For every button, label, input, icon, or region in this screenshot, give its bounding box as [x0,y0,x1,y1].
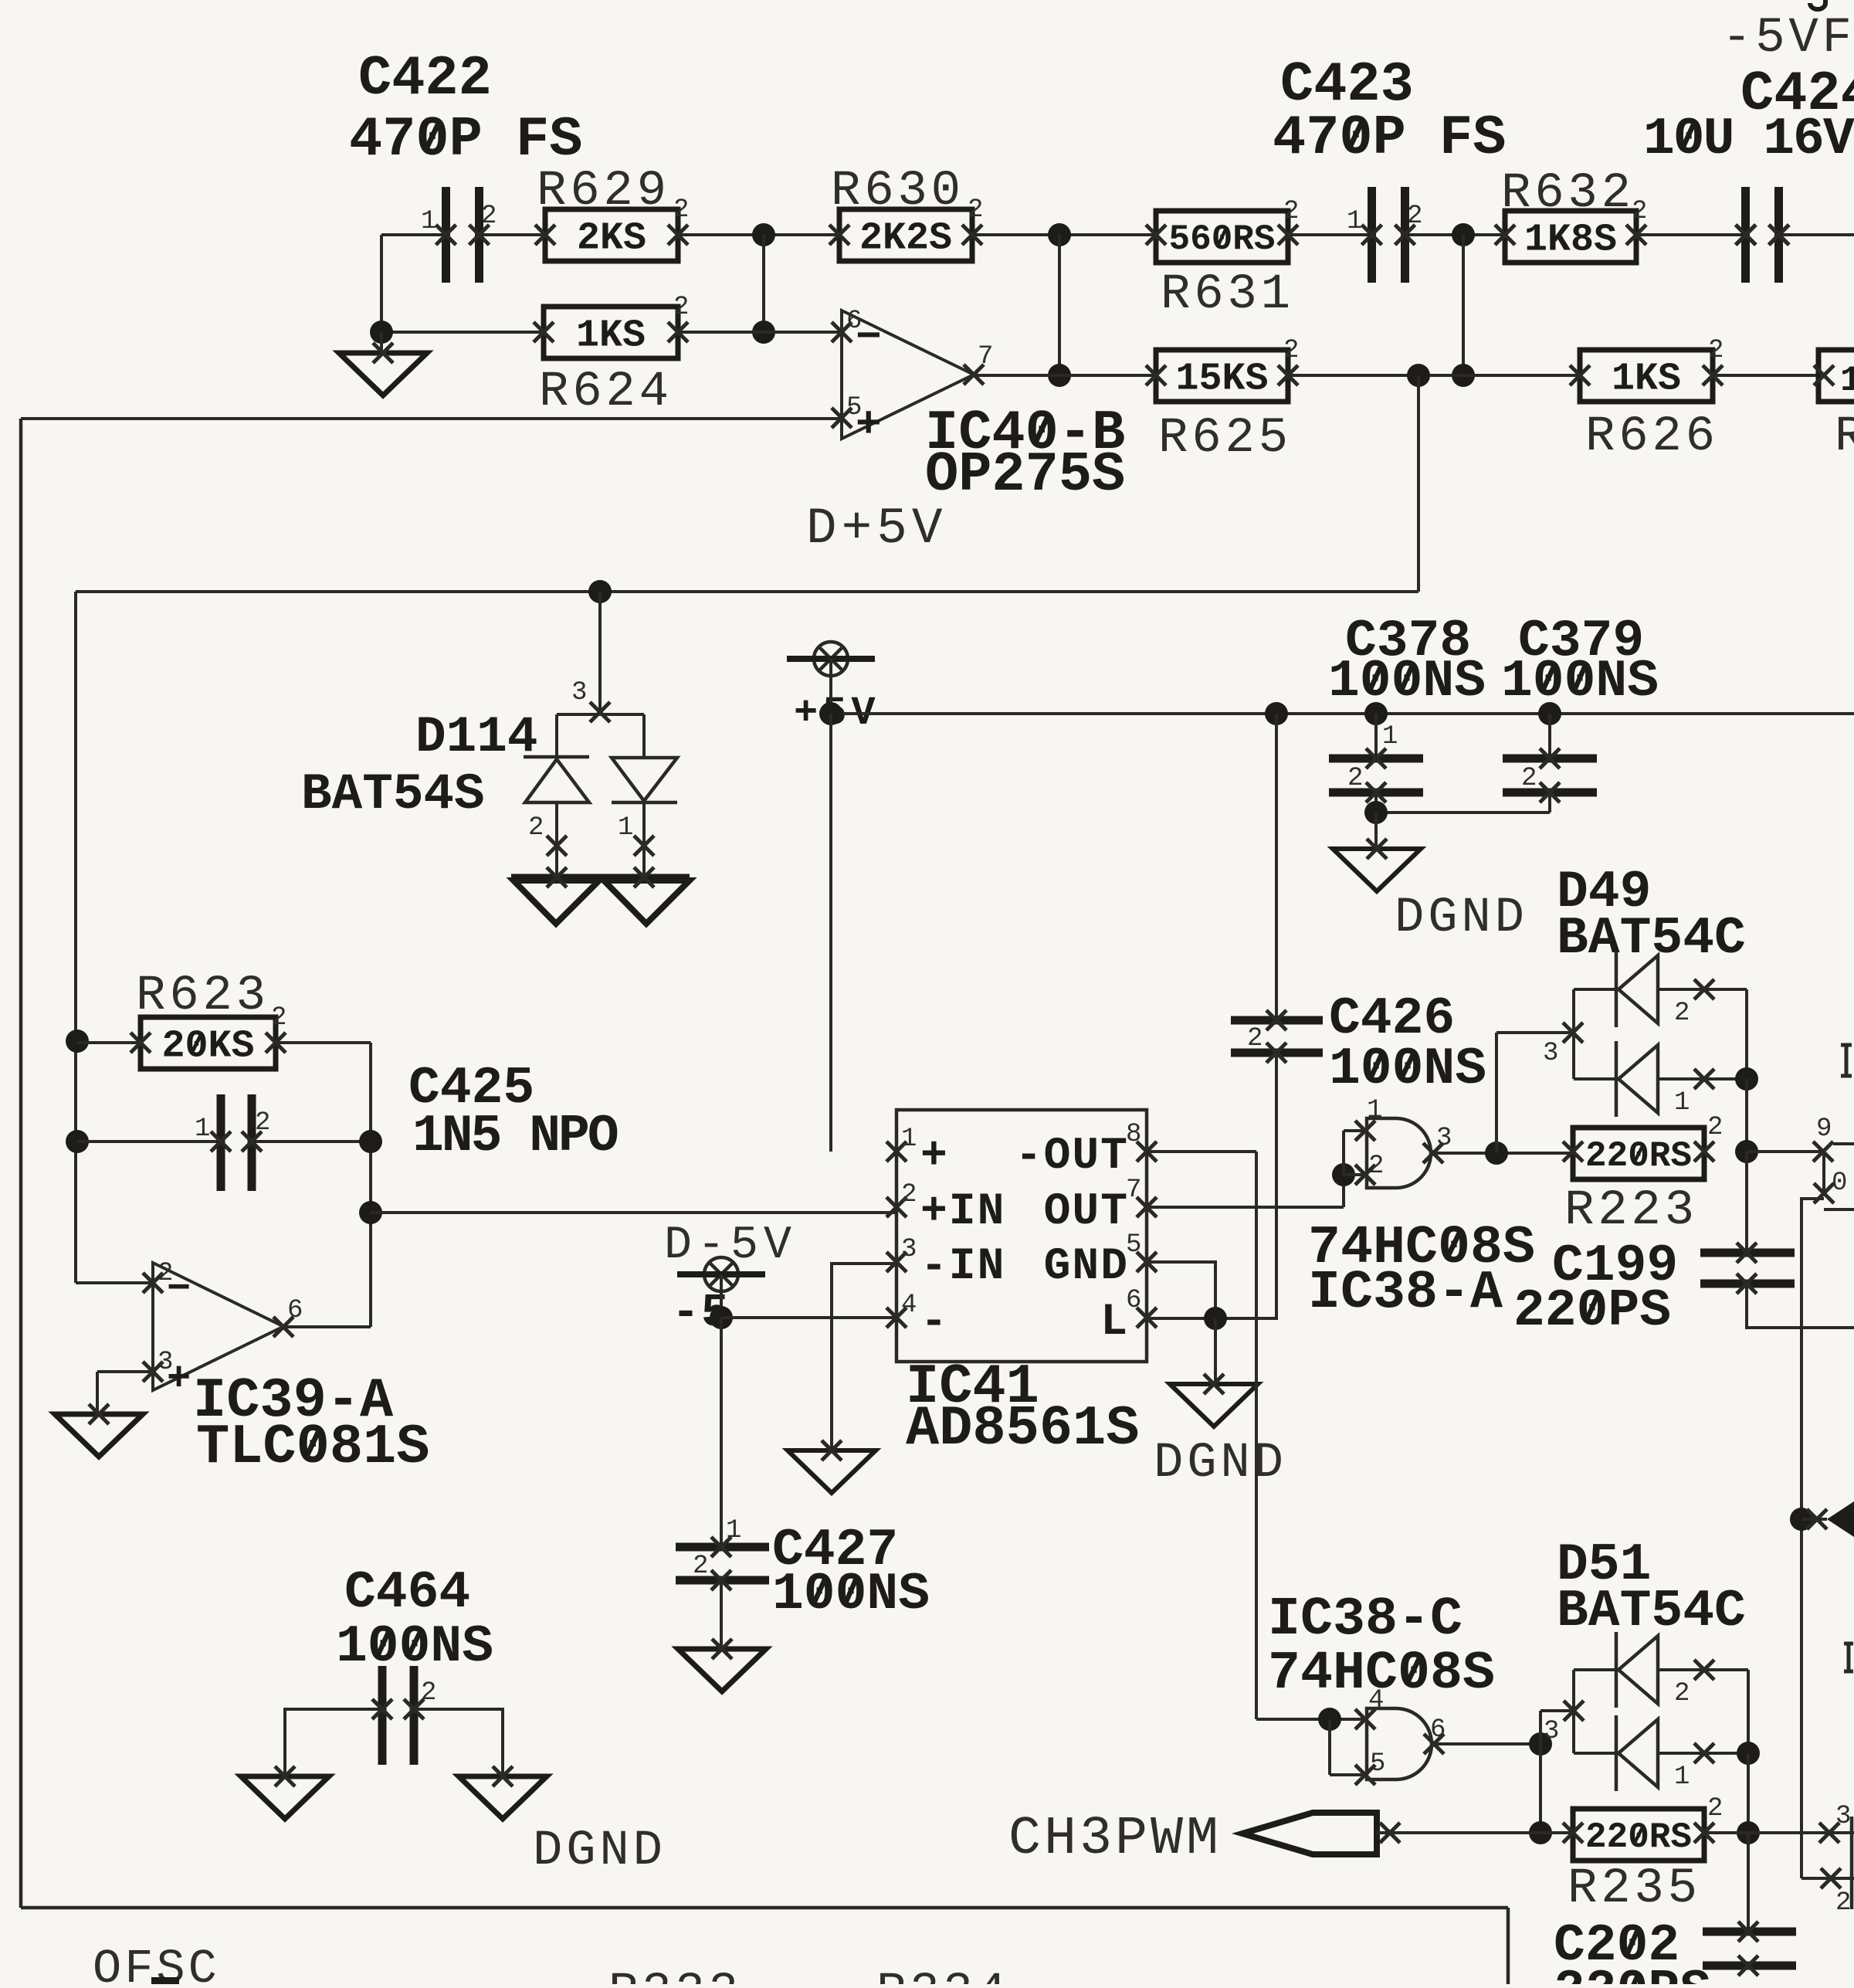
svg-text:2: 2 [1247,1024,1263,1053]
wire C427 to ground [720,1580,723,1649]
wire GND pin jog [1147,1262,1215,1318]
svg-text:6: 6 [287,1296,303,1325]
svg-text:R334: R334 [876,1966,1010,1984]
capacitor C378 [1374,714,1378,758]
svg-text:-IN: -IN [920,1242,1005,1292]
power symbol D-5V [704,1257,738,1291]
svg-text:2: 2 [1368,1152,1384,1181]
svg-text:2: 2 [271,1003,286,1033]
wire -IN jog to ground [832,1264,896,1450]
svg-text:2: 2 [255,1108,270,1138]
resistor R625 [1156,350,1288,402]
wire IC38-A input bracket [1342,1131,1345,1175]
svg-text:2: 2 [1407,202,1422,231]
svg-text:R631: R631 [1161,267,1294,323]
wire op-amp output row y=486 [974,374,1156,377]
svg-text:2: 2 [1674,1679,1690,1708]
svg-text:IC38-C: IC38-C [1268,1589,1463,1650]
svg-text:3: 3 [1544,1717,1559,1746]
wire pin10 bracket [1822,1152,1825,1193]
wire D-5V down to C427 [720,1318,723,1547]
wire inner feedback y=766 [76,590,1418,593]
wire C464 right leg [414,1709,503,1776]
ground under IC39-A + [55,1414,143,1457]
resistor R631 [1156,211,1288,263]
svg-text:220PS: 220PS [1554,1962,1711,1984]
capacitor C202 [1747,1833,1750,1932]
wire C426 bottom to L net [1275,1053,1278,1318]
svg-text:R: R [1835,409,1854,465]
svg-text:3: 3 [1543,1039,1558,1068]
AND gate IC38-A 74HC08S [1367,1118,1431,1188]
op-amp IC39-A TLC081S [153,1263,283,1390]
wire -OUT pin8 to drop [1147,1150,1256,1153]
capacitor C425 [221,1094,252,1191]
wire IC39 output [283,1325,371,1328]
wire -OUT long drop x=1627 [1255,1152,1258,1719]
wire D51 common down to R235 net [1747,1753,1750,1833]
svg-text:6: 6 [1430,1715,1446,1745]
ground DGND under C378 [1333,849,1421,891]
connector CH3PWM arrow [1242,1813,1377,1854]
wire junction drop x=989 [762,235,765,332]
svg-text:0: 0 [1832,1169,1847,1198]
svg-text:2: 2 [968,195,983,225]
IC41 pin3 -IN [886,1252,907,1272]
svg-text:2: 2 [158,1259,173,1288]
junction node C423/R632 [1452,223,1475,246]
wire OUT pin7 to gate IC38-A [1147,1206,1344,1209]
svg-text:R626: R626 [1585,409,1719,465]
svg-text:R333: R333 [608,1966,742,1984]
svg-text:2: 2 [1707,1794,1723,1823]
wire frame right drop x=1953 [1507,1908,1510,1984]
svg-text:2: 2 [1521,764,1537,793]
wire left frame vertical x=27 [19,419,23,1908]
svg-text:CH3PWM: CH3PWM [1008,1809,1222,1870]
IC41 pin2 +IN [886,1197,907,1217]
ground pair under D114 [511,874,690,881]
svg-text:R629: R629 [537,164,670,219]
svg-text:6: 6 [846,307,862,336]
svg-text:2: 2 [673,195,689,225]
wire D-5V to IC41 pin4 [721,1316,896,1319]
junction node to lower loop [1407,364,1430,387]
wire inner left drop x=98 [74,592,77,1283]
resistor R235 [1573,1809,1704,1861]
svg-text:IC38-A: IC38-A [1308,1263,1503,1324]
svg-text:-5VF: -5VF [1722,11,1854,66]
svg-text:-OUT: -OUT [1015,1131,1129,1182]
node C425 left [66,1130,89,1153]
wire to D49 pin3 [1495,1033,1498,1153]
svg-text:BAT54C: BAT54C [1557,1582,1746,1641]
resistor R632 [1505,211,1636,263]
svg-text:2: 2 [1707,1113,1723,1142]
svg-text:2: 2 [1347,764,1363,793]
svg-text:1K8S: 1K8S [1524,219,1617,263]
IC41 pin1 + [886,1142,907,1162]
wire R223 to pin9 [1747,1150,1823,1153]
IC41 pin5 GND [1137,1252,1157,1272]
svg-text:2: 2 [901,1180,917,1209]
capacitor C422 [446,187,480,283]
AND gate IC38-C 74HC08S [1367,1708,1432,1779]
wire IC39 - input [76,1281,153,1284]
wire feedback drop x=1837 [1417,375,1420,592]
svg-text:R623: R623 [136,969,269,1024]
svg-text:+: + [920,1131,949,1182]
wire C199 bottom out [1747,1284,1854,1328]
wire R624 row y=430 [381,331,544,334]
svg-text:GND: GND [1044,1242,1129,1292]
svg-text:1: 1 [421,207,436,236]
svg-text:2: 2 [481,202,497,231]
wire +5V drop to IC41 pin1 [829,714,832,1152]
wire jog up to D51 pin3 [1539,1711,1542,1744]
svg-text:R625: R625 [1158,411,1292,466]
svg-text:+IN: +IN [920,1187,1005,1237]
svg-text:1KS: 1KS [576,314,646,358]
resistor R626 [1580,350,1713,402]
resistor R627 partial at right edge [1818,350,1854,402]
wire IC38-C pin5 bracket [1328,1719,1331,1775]
svg-text:7: 7 [978,342,993,371]
wire CH3PWM to R235 [1377,1831,1573,1834]
ground DGND under IC41 [1170,1384,1258,1427]
wire C378/C379 ground link [1374,792,1378,813]
svg-text:DGND: DGND [1154,1436,1287,1491]
comparator IC41 AD8561S box [896,1110,1147,1362]
wire gate C output [1434,1742,1540,1745]
svg-text:R624: R624 [539,365,673,420]
wire IC39 + input to ground [97,1370,153,1373]
junction node R629/R630 [752,223,775,246]
svg-text:2: 2 [693,1552,708,1581]
wire op-amp + input long rail y=542 [21,417,842,420]
node +IN tap [359,1201,382,1224]
svg-text:D114: D114 [415,708,537,766]
svg-text:1: 1 [726,1516,741,1545]
svg-text:R630: R630 [831,164,964,219]
capacitor C423 [1372,187,1405,283]
svg-text:AD8561S: AD8561S [906,1397,1139,1460]
svg-text:1: 1 [1674,1088,1690,1118]
resistor R223 [1573,1128,1704,1179]
svg-text:1: 1 [1674,1762,1690,1792]
IC41 pin6 L [1137,1308,1157,1328]
svg-text:2: 2 [528,813,544,843]
svg-text:L: L [1100,1298,1129,1348]
node C426 tap on +5V rail [1265,702,1288,725]
svg-text:C422: C422 [358,47,492,110]
diode pair D114 BAT54S [555,714,558,757]
svg-text:10U 16V: 10U 16V [1643,110,1854,169]
IC41 pin8 -OUT [1137,1142,1157,1162]
capacitor C424 [1746,187,1779,283]
ground AGND under C422 [339,353,427,395]
svg-text:-: - [920,1298,949,1348]
resistor R629 [545,209,678,261]
svg-text:2: 2 [421,1678,436,1708]
svg-text:4: 4 [901,1291,917,1320]
wire gate C output down to CH3PWM net [1539,1744,1542,1833]
svg-text:DGND: DGND [1395,891,1528,946]
svg-text:D+5V: D+5V [806,500,947,558]
svg-text:3: 3 [1835,1802,1851,1831]
wire to DGND [1374,813,1378,849]
wire C425 row [77,1140,221,1143]
wire pin2 from long drop [1801,1877,1854,1880]
svg-text:3: 3 [158,1348,173,1377]
svg-text:1N5 NPO: 1N5 NPO [412,1107,618,1166]
svg-text:20KS: 20KS [161,1025,254,1069]
svg-text:74HC08S: 74HC08S [1268,1644,1495,1705]
svg-text:2: 2 [1835,1888,1851,1918]
junction node R630/R631 with feedback drop [1048,223,1071,246]
node R623 left [66,1030,89,1053]
svg-text:470P FS: 470P FS [1273,107,1506,170]
svg-text:3: 3 [901,1235,917,1264]
node right edge diode tap [1790,1508,1813,1531]
wire D49 common to R223 net [1745,1079,1748,1152]
ground under IC41 -IN [788,1450,876,1493]
svg-text:15KS: 15KS [1175,358,1268,402]
resistor R624 [544,307,678,358]
IC41 pin7 OUT [1137,1197,1157,1217]
partial glyph top right [1810,0,1825,9]
wire gate A output [1433,1152,1573,1155]
wire C422 left drop to ground node [380,235,383,332]
node C379 tap [1538,702,1561,725]
svg-text:BAT54S: BAT54S [301,765,485,823]
svg-text:OP275S: OP275S [925,443,1125,507]
resistor R623 [141,1017,276,1069]
partial label I right edge [1841,1045,1852,1076]
svg-text:5: 5 [846,393,862,422]
node D-5V [720,1274,723,1318]
power symbol D+5V [814,642,848,676]
svg-text:2: 2 [1283,336,1299,365]
svg-text:2KS: 2KS [577,217,646,261]
svg-text:3: 3 [1436,1124,1452,1153]
capacitor C426 [1275,714,1278,1020]
wire net C422/R629 input, top row y=304 [381,233,446,236]
svg-text:2: 2 [1283,197,1299,226]
svg-text:1: 1 [1367,1096,1382,1125]
bracket right edge partial [1850,1817,1854,1909]
svg-text:2: 2 [1674,999,1690,1028]
wire R235 to pin3 [1704,1831,1854,1834]
svg-text:3: 3 [571,678,587,707]
node R223 output [1735,1140,1758,1163]
wire C464 left leg [285,1709,382,1776]
wire long drop x=2333 [1800,1205,1803,1878]
wire IC38-C input from -OUT net [1256,1718,1365,1721]
svg-text:9: 9 [1816,1114,1832,1144]
svg-text:1: 1 [195,1114,210,1144]
svg-text:5: 5 [1370,1749,1385,1779]
capacitor C199 [1745,1152,1748,1253]
wire +5V rail y=924 [829,659,832,714]
wire bottom frame y=2470 [21,1906,1508,1910]
svg-text:2K2S: 2K2S [859,217,952,261]
svg-text:1: 1 [1840,361,1854,401]
IC41 pin4 - [886,1308,907,1328]
svg-text:DGND: DGND [533,1823,666,1879]
svg-text:R235: R235 [1568,1861,1701,1917]
svg-text:2: 2 [673,293,689,322]
svg-text:2: 2 [1708,336,1724,365]
svg-text:1: 1 [1347,207,1362,236]
svg-text:OUT: OUT [1044,1187,1129,1237]
svg-text:C464: C464 [344,1563,470,1623]
op-amp IC40-B OP275S [842,310,974,439]
wire R623 row [77,1041,141,1044]
svg-text:1: 1 [618,813,633,843]
svg-text:D-5V: D-5V [664,1220,797,1272]
ground under C464 left [241,1776,329,1819]
capacitor C379 [1548,714,1551,758]
wire GND/L to DGND [1214,1318,1217,1384]
svg-text:R632: R632 [1501,166,1635,222]
wire right riser x=480 [369,1043,372,1327]
wire L pin row [1147,1317,1278,1320]
svg-text:470P FS: 470P FS [349,108,582,171]
wire +IN long y=1570 [371,1211,896,1214]
ground under C464 right [459,1776,547,1819]
svg-text:1KS: 1KS [1612,358,1681,402]
svg-text:R223: R223 [1564,1183,1698,1239]
svg-text:1: 1 [901,1125,917,1154]
capacitor C427 [676,1547,769,1580]
node C378 tap [1364,702,1388,725]
node D114 tap [588,580,612,603]
diode at right edge (partial) [1807,1509,1827,1529]
svg-text:1: 1 [1382,722,1398,751]
ground under C427 [678,1649,766,1691]
wire D114 pin3 lead [598,592,602,714]
resistor R630 [839,209,972,261]
node C422/R624/ground [370,321,393,344]
node R235 output [1737,1821,1760,1844]
